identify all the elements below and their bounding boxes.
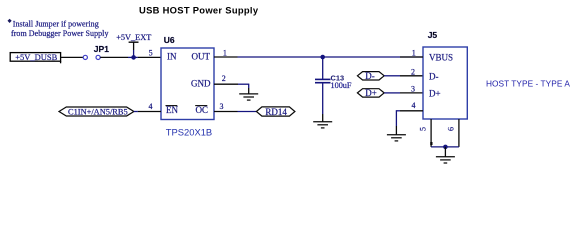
svg-text:D-: D- [365,71,375,81]
svg-text:5: 5 [149,48,153,57]
svg-text:Install Jumper if powering: Install Jumper if powering [13,19,99,28]
svg-text:OUT: OUT [192,51,211,61]
svg-text:D-: D- [429,71,439,81]
svg-text:D+: D+ [429,88,441,98]
svg-text:C1IN+/AN5/RB5: C1IN+/AN5/RB5 [68,108,128,117]
svg-text:1: 1 [223,48,227,57]
svg-text:from Debugger Power Supply: from Debugger Power Supply [11,29,109,38]
svg-text:5: 5 [419,127,428,131]
svg-text:OC: OC [196,105,209,115]
svg-text:JP1: JP1 [94,44,109,54]
svg-text:U6: U6 [164,35,175,45]
svg-text:100uF: 100uF [331,81,352,90]
svg-text:3: 3 [220,102,224,111]
svg-text:USB HOST Power Supply: USB HOST Power Supply [139,5,259,16]
svg-text:6: 6 [447,127,456,131]
svg-text:2: 2 [411,67,415,76]
svg-text:GND: GND [191,78,211,88]
svg-text:TPS20X1B: TPS20X1B [166,126,212,137]
svg-text:3: 3 [411,84,415,93]
svg-text:J5: J5 [428,30,438,40]
svg-text:RD14: RD14 [265,107,287,117]
svg-text:VBUS: VBUS [429,52,453,62]
svg-text:1: 1 [412,49,416,58]
svg-text:4: 4 [149,102,153,111]
svg-text:EN: EN [166,105,178,115]
svg-text:HOST TYPE - TYPE A: HOST TYPE - TYPE A [486,78,570,88]
svg-text:IN: IN [167,51,177,61]
svg-text:+5V_DUSB: +5V_DUSB [15,52,57,62]
svg-text:2: 2 [222,74,226,83]
svg-text:4: 4 [412,101,416,110]
svg-text:D+: D+ [365,88,377,98]
svg-text:+5V_EXT: +5V_EXT [116,33,151,42]
